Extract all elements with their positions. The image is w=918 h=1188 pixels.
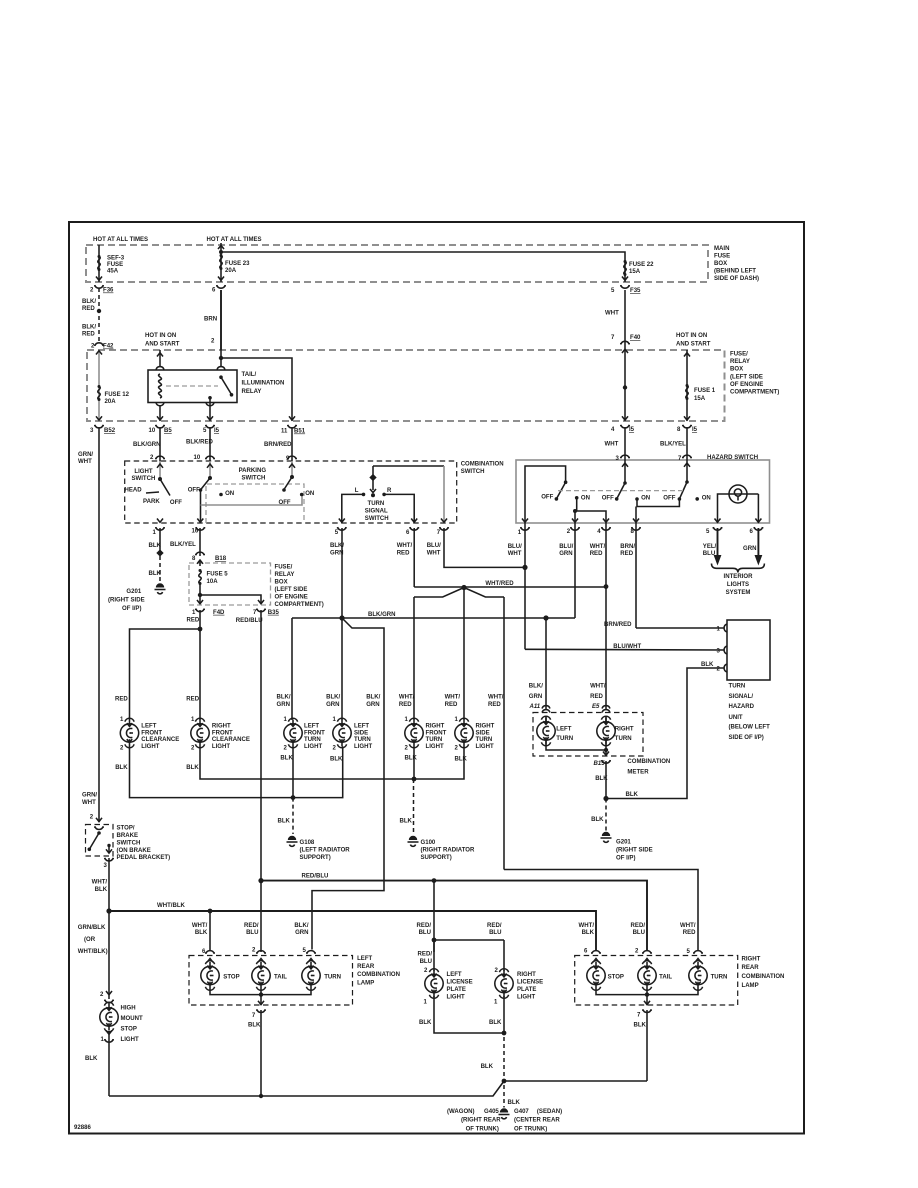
svg-text:BRN: BRN [204,317,217,323]
svg-text:G201: G201 [616,840,631,846]
svg-text:RIGHT: RIGHT [212,723,231,729]
svg-text:BLU/WHT: BLU/WHT [613,644,641,650]
svg-text:GRN: GRN [277,702,290,708]
svg-text:TURN: TURN [368,501,385,507]
svg-text:OFF: OFF [279,500,291,506]
svg-text:COMBINATION: COMBINATION [742,974,785,980]
svg-text:BLK/GRN: BLK/GRN [368,612,396,618]
svg-text:LEFT: LEFT [357,956,372,962]
svg-text:OFF: OFF [602,495,614,501]
svg-text:HAZARD: HAZARD [729,704,755,710]
svg-text:ON: ON [581,495,590,501]
svg-text:RED: RED [590,694,603,700]
svg-text:OF TRUNK): OF TRUNK) [514,1126,547,1132]
svg-text:B18: B18 [215,556,227,562]
svg-text:TURN: TURN [426,737,443,743]
svg-text:RELAY: RELAY [275,572,295,578]
svg-text:HOT AT ALL TIMES: HOT AT ALL TIMES [207,237,262,243]
svg-text:92886: 92886 [74,1125,91,1131]
svg-text:FUSE 12: FUSE 12 [105,392,130,398]
svg-text:BLK: BLK [508,1100,521,1106]
svg-text:WHT: WHT [78,459,92,465]
svg-text:LIGHT: LIGHT [517,994,535,1000]
svg-text:SWITCH: SWITCH [132,476,156,482]
svg-text:L: L [355,488,359,494]
svg-text:I5: I5 [629,427,635,433]
svg-text:COMBINATION: COMBINATION [627,759,670,765]
svg-text:ON: ON [225,491,234,497]
svg-text:BLK: BLK [400,819,413,825]
svg-text:BLK/: BLK/ [529,684,543,690]
svg-text:BLK: BLK [330,757,343,763]
svg-text:STOP: STOP [223,975,239,981]
svg-text:FRONT: FRONT [141,730,162,736]
svg-text:BLK: BLK [85,1056,98,1062]
svg-text:RED: RED [82,306,95,312]
svg-text:BLK: BLK [582,930,595,936]
svg-text:COMPARTMENT): COMPARTMENT) [275,602,324,608]
svg-text:(RIGHT SIDE: (RIGHT SIDE [108,598,145,604]
svg-text:B5: B5 [164,428,172,434]
svg-text:GRN/: GRN/ [82,793,97,799]
svg-text:FUSE: FUSE [107,262,123,268]
svg-text:CLEARANCE: CLEARANCE [212,737,250,743]
svg-text:FUSE 22: FUSE 22 [629,262,654,268]
svg-text:SUPPORT): SUPPORT) [421,855,452,861]
svg-text:(SEDAN): (SEDAN) [537,1109,562,1115]
svg-text:FUSE 5: FUSE 5 [207,572,229,578]
svg-text:LAMP: LAMP [742,983,759,989]
svg-text:BLK/: BLK/ [330,543,344,549]
svg-text:LIGHT: LIGHT [447,994,465,1000]
svg-text:YEL/: YEL/ [703,544,717,550]
svg-text:BLK: BLK [149,543,162,549]
svg-text:RED: RED [488,702,501,708]
svg-text:BLK/YEL: BLK/YEL [660,442,686,448]
svg-text:WHT/: WHT/ [397,543,413,549]
svg-text:WHT/BLK: WHT/BLK [157,903,186,909]
svg-text:LAMP: LAMP [357,981,374,987]
svg-text:BRN/RED: BRN/RED [264,442,292,448]
svg-text:20A: 20A [105,399,117,405]
svg-text:STOP: STOP [608,975,624,981]
svg-text:F42: F42 [103,344,114,350]
svg-text:BLK: BLK [186,765,199,771]
svg-text:BLU/: BLU/ [427,543,441,549]
svg-text:BOX: BOX [730,367,743,373]
svg-text:WHT/: WHT/ [579,923,595,929]
svg-text:BOX: BOX [714,261,727,267]
svg-text:E5: E5 [592,704,600,710]
svg-text:WHT/RED: WHT/RED [485,581,514,587]
svg-text:LICENSE: LICENSE [517,979,543,985]
svg-text:MAIN: MAIN [714,246,729,252]
svg-text:OFF: OFF [170,500,182,506]
svg-text:F40: F40 [630,335,641,341]
svg-text:SUPPORT): SUPPORT) [300,855,331,861]
svg-text:SIDE: SIDE [476,730,490,736]
svg-text:LIGHT: LIGHT [426,744,444,750]
svg-text:LIGHT: LIGHT [212,744,230,750]
svg-text:BLU/: BLU/ [559,544,573,550]
svg-text:LIGHT: LIGHT [121,1037,139,1043]
svg-text:BLU: BLU [703,551,715,557]
svg-text:ON: ON [702,495,711,501]
svg-text:HOT AT ALL TIMES: HOT AT ALL TIMES [93,237,148,243]
svg-text:LIGHT: LIGHT [141,744,159,750]
svg-text:GRN: GRN [295,930,308,936]
svg-text:SWITCH: SWITCH [365,516,389,522]
svg-text:HOT IN ON: HOT IN ON [676,333,707,339]
svg-text:OFF: OFF [541,495,553,501]
svg-text:SIGNAL: SIGNAL [365,509,388,515]
svg-text:TAIL: TAIL [659,975,672,981]
svg-text:RIGHT: RIGHT [426,723,445,729]
svg-text:OF I/P): OF I/P) [616,856,635,862]
svg-text:ILLUMINATION: ILLUMINATION [242,381,285,387]
svg-text:(RIGHT SIDE: (RIGHT SIDE [616,848,653,854]
svg-text:WHT/: WHT/ [445,695,461,701]
svg-text:GRN: GRN [529,694,542,700]
svg-text:BLK: BLK [626,792,639,798]
svg-text:B51: B51 [294,429,306,435]
svg-text:HEAD: HEAD [125,488,143,494]
svg-text:MOUNT: MOUNT [121,1016,143,1022]
svg-text:BLK/YEL: BLK/YEL [170,542,196,548]
svg-text:GRN: GRN [743,546,756,552]
svg-text:INTERIOR: INTERIOR [724,574,754,580]
svg-text:WHT/: WHT/ [488,695,504,701]
svg-text:OF ENGINE: OF ENGINE [730,382,763,388]
svg-text:(ON BRAKE: (ON BRAKE [117,848,151,854]
svg-text:TURN: TURN [615,736,632,742]
svg-text:OFF: OFF [663,495,675,501]
svg-text:BLK/: BLK/ [277,695,291,701]
svg-text:TURN: TURN [556,736,573,742]
svg-text:(BEHIND LEFT: (BEHIND LEFT [714,269,756,275]
svg-text:TURN: TURN [304,737,321,743]
svg-text:RED/BLU: RED/BLU [236,618,263,624]
svg-text:LIGHT: LIGHT [304,744,322,750]
svg-text:GRN: GRN [330,550,343,556]
svg-text:I5: I5 [214,428,220,434]
svg-text:STOP: STOP [121,1027,137,1033]
svg-text:UNIT: UNIT [729,715,743,721]
svg-text:TAIL: TAIL [274,975,287,981]
svg-text:G405: G405 [484,1109,499,1115]
svg-text:LIGHTS: LIGHTS [727,582,749,588]
svg-text:RED: RED [590,551,603,557]
svg-text:OF ENGINE: OF ENGINE [275,595,308,601]
svg-text:WHT/: WHT/ [680,923,696,929]
svg-text:CLEARANCE: CLEARANCE [141,737,179,743]
svg-text:I5: I5 [692,427,698,433]
svg-text:(CENTER REAR: (CENTER REAR [514,1118,560,1124]
svg-text:WHT/: WHT/ [590,684,606,690]
svg-text:BLK: BLK [595,776,608,782]
svg-text:SWITCH: SWITCH [117,840,141,846]
svg-text:G201: G201 [126,589,141,595]
svg-text:(WAGON): (WAGON) [447,1109,475,1115]
svg-text:(LEFT SIDE: (LEFT SIDE [275,587,308,593]
svg-text:REAR: REAR [357,964,375,970]
svg-text:BLK/: BLK/ [366,695,380,701]
svg-text:BLK: BLK [455,757,468,763]
svg-text:BLK: BLK [278,819,291,825]
svg-text:BLK: BLK [95,887,108,893]
svg-text:HAZARD SWITCH: HAZARD SWITCH [707,455,758,461]
svg-text:TURN: TURN [729,683,746,689]
svg-text:G407: G407 [514,1109,529,1115]
svg-text:TURN: TURN [354,737,371,743]
svg-text:BLK: BLK [195,930,208,936]
svg-text:45A: 45A [107,269,119,275]
svg-text:OF I/P): OF I/P) [122,606,141,612]
svg-text:GRN: GRN [366,702,379,708]
svg-text:RED: RED [115,696,128,702]
svg-text:RED: RED [620,551,633,557]
svg-text:LIGHT: LIGHT [476,744,494,750]
svg-text:BLK/: BLK/ [82,299,96,305]
svg-text:RED: RED [445,702,458,708]
svg-text:BLU: BLU [489,930,501,936]
svg-text:COMBINATION: COMBINATION [357,972,400,978]
svg-text:COMBINATION: COMBINATION [461,461,504,467]
svg-text:RELAY: RELAY [242,389,262,395]
svg-text:OF TRUNK): OF TRUNK) [466,1126,499,1132]
svg-text:RED/BLU: RED/BLU [302,874,329,880]
svg-text:RIGHT: RIGHT [615,727,634,733]
svg-text:PARK: PARK [143,499,160,505]
svg-text:LEFT: LEFT [447,972,462,978]
svg-text:BLK: BLK [248,1023,261,1029]
svg-text:WHT/: WHT/ [92,879,108,885]
svg-text:(RIGHT REAR: (RIGHT REAR [461,1118,501,1124]
svg-text:RED: RED [187,618,200,624]
svg-text:TURN: TURN [476,737,493,743]
svg-text:F35: F35 [630,288,641,294]
svg-text:(RIGHT RADIATOR: (RIGHT RADIATOR [421,848,475,854]
svg-text:BLK: BLK [489,1020,502,1026]
svg-text:FRONT: FRONT [304,730,325,736]
svg-text:PLATE: PLATE [447,987,466,993]
svg-text:WHT/: WHT/ [590,544,606,550]
svg-text:FUSE 1: FUSE 1 [694,388,716,394]
svg-text:G100: G100 [421,840,436,846]
svg-text:BLK: BLK [701,662,714,668]
svg-text:15A: 15A [694,396,706,402]
svg-text:GRN: GRN [326,702,339,708]
svg-text:ON: ON [641,495,650,501]
svg-text:SIGNAL/: SIGNAL/ [729,694,754,700]
svg-text:WHT: WHT [82,800,96,806]
svg-text:AND START: AND START [676,342,711,348]
svg-text:RIGHT: RIGHT [476,723,495,729]
svg-text:R: R [387,488,392,494]
svg-text:RED/: RED/ [631,923,646,929]
svg-text:BRAKE: BRAKE [117,833,139,839]
svg-text:WHT: WHT [605,442,619,448]
svg-text:RED: RED [683,930,696,936]
svg-text:SWITCH: SWITCH [242,476,266,482]
svg-text:BLK: BLK [481,1064,494,1070]
svg-text:BLK/: BLK/ [294,923,308,929]
svg-text:B15: B15 [594,761,606,767]
svg-text:STOP/: STOP/ [117,826,135,832]
svg-text:PEDAL BRACKET): PEDAL BRACKET) [117,855,171,861]
svg-text:BLU/: BLU/ [508,544,522,550]
svg-text:BLK: BLK [591,817,604,823]
svg-text:BLK/: BLK/ [82,325,96,331]
svg-text:16: 16 [192,529,199,535]
svg-text:PLATE: PLATE [517,987,536,993]
svg-text:RED/: RED/ [417,923,432,929]
svg-text:LEFT: LEFT [141,723,156,729]
svg-text:BLK: BLK [419,1020,432,1026]
svg-text:FRONT: FRONT [212,730,233,736]
svg-text:F4D: F4D [213,610,225,616]
svg-text:GRN: GRN [559,551,572,557]
svg-text:G108: G108 [300,840,315,846]
svg-text:RIGHT: RIGHT [517,972,536,978]
svg-text:B35: B35 [268,610,280,616]
svg-text:BLU: BLU [419,930,431,936]
svg-text:GRN/: GRN/ [78,452,93,458]
svg-text:A11: A11 [529,704,541,710]
svg-text:BLK: BLK [280,756,293,762]
svg-text:LEFT: LEFT [304,723,319,729]
svg-text:SYSTEM: SYSTEM [726,590,751,596]
svg-text:LICENSE: LICENSE [447,979,473,985]
svg-text:WHT/BLK): WHT/BLK) [78,949,108,955]
svg-text:TURN: TURN [711,975,728,981]
svg-text:BLU: BLU [420,959,432,965]
svg-text:FRONT: FRONT [426,730,447,736]
svg-text:BLK/RED: BLK/RED [186,439,214,445]
svg-text:(LEFT SIDE: (LEFT SIDE [730,374,763,380]
svg-text:SIDE: SIDE [354,730,368,736]
svg-text:FUSE/: FUSE/ [730,352,748,358]
svg-text:BLK: BLK [115,765,128,771]
svg-text:FUSE: FUSE [714,254,730,260]
svg-text:B52: B52 [104,428,116,434]
svg-text:OFF: OFF [188,488,200,494]
svg-text:BLK: BLK [149,571,162,577]
svg-text:RIGHT: RIGHT [742,956,761,962]
svg-text:BLK: BLK [405,756,418,762]
svg-text:SWITCH: SWITCH [461,469,485,475]
svg-text:GRN/BLK: GRN/BLK [78,925,106,931]
svg-text:REAR: REAR [742,965,760,971]
svg-text:WHT/: WHT/ [399,695,415,701]
svg-text:LIGHT: LIGHT [354,744,372,750]
svg-text:PARKING: PARKING [239,468,267,474]
svg-text:RELAY: RELAY [730,359,750,365]
svg-text:SEF-3: SEF-3 [107,256,125,262]
svg-text:BOX: BOX [275,580,288,586]
svg-text:RED/: RED/ [487,923,502,929]
svg-text:METER: METER [627,769,649,775]
svg-text:F36: F36 [103,288,114,294]
svg-text:BLU: BLU [633,930,645,936]
svg-text:AND START: AND START [145,342,180,348]
svg-text:LEFT: LEFT [556,727,571,733]
svg-text:SIDE OF DASH): SIDE OF DASH) [714,276,759,282]
svg-text:RED: RED [399,702,412,708]
svg-text:(BELOW LEFT: (BELOW LEFT [729,725,771,731]
svg-text:TURN: TURN [324,975,341,981]
svg-text:LIGHT: LIGHT [134,469,152,475]
svg-text:WHT: WHT [605,311,619,317]
svg-text:(OR: (OR [84,937,96,943]
svg-text:WHT/: WHT/ [192,923,208,929]
svg-text:COMPARTMENT): COMPARTMENT) [730,390,779,396]
svg-text:10: 10 [149,428,156,434]
svg-text:RED: RED [82,332,95,338]
svg-text:HIGH: HIGH [121,1006,136,1012]
svg-text:BRN/: BRN/ [620,544,635,550]
svg-text:BLK: BLK [634,1023,647,1029]
svg-text:11: 11 [281,429,288,435]
svg-text:FUSE 23: FUSE 23 [225,261,250,267]
svg-text:15A: 15A [629,269,641,275]
svg-text:ON: ON [305,491,314,497]
svg-text:RED: RED [397,550,410,556]
svg-text:10A: 10A [207,579,219,585]
svg-text:RED/: RED/ [244,923,259,929]
svg-text:WHT: WHT [427,550,441,556]
svg-text:RED/: RED/ [418,952,433,958]
svg-text:BLU: BLU [246,930,258,936]
svg-text:BLK/GRN: BLK/GRN [133,442,161,448]
svg-text:TAIL/: TAIL/ [242,372,257,378]
svg-text:20A: 20A [225,268,237,274]
svg-text:RED: RED [186,696,199,702]
svg-text:BRN/RED: BRN/RED [604,622,632,628]
svg-text:WHT: WHT [508,551,522,557]
svg-text:BLK/: BLK/ [326,695,340,701]
svg-text:SIDE OF I/P): SIDE OF I/P) [729,735,764,741]
svg-text:LEFT: LEFT [354,723,369,729]
svg-text:FUSE/: FUSE/ [275,565,293,571]
svg-text:(LEFT RADIATOR: (LEFT RADIATOR [300,848,351,854]
svg-text:10: 10 [194,455,201,461]
svg-text:HOT IN ON: HOT IN ON [145,333,176,339]
